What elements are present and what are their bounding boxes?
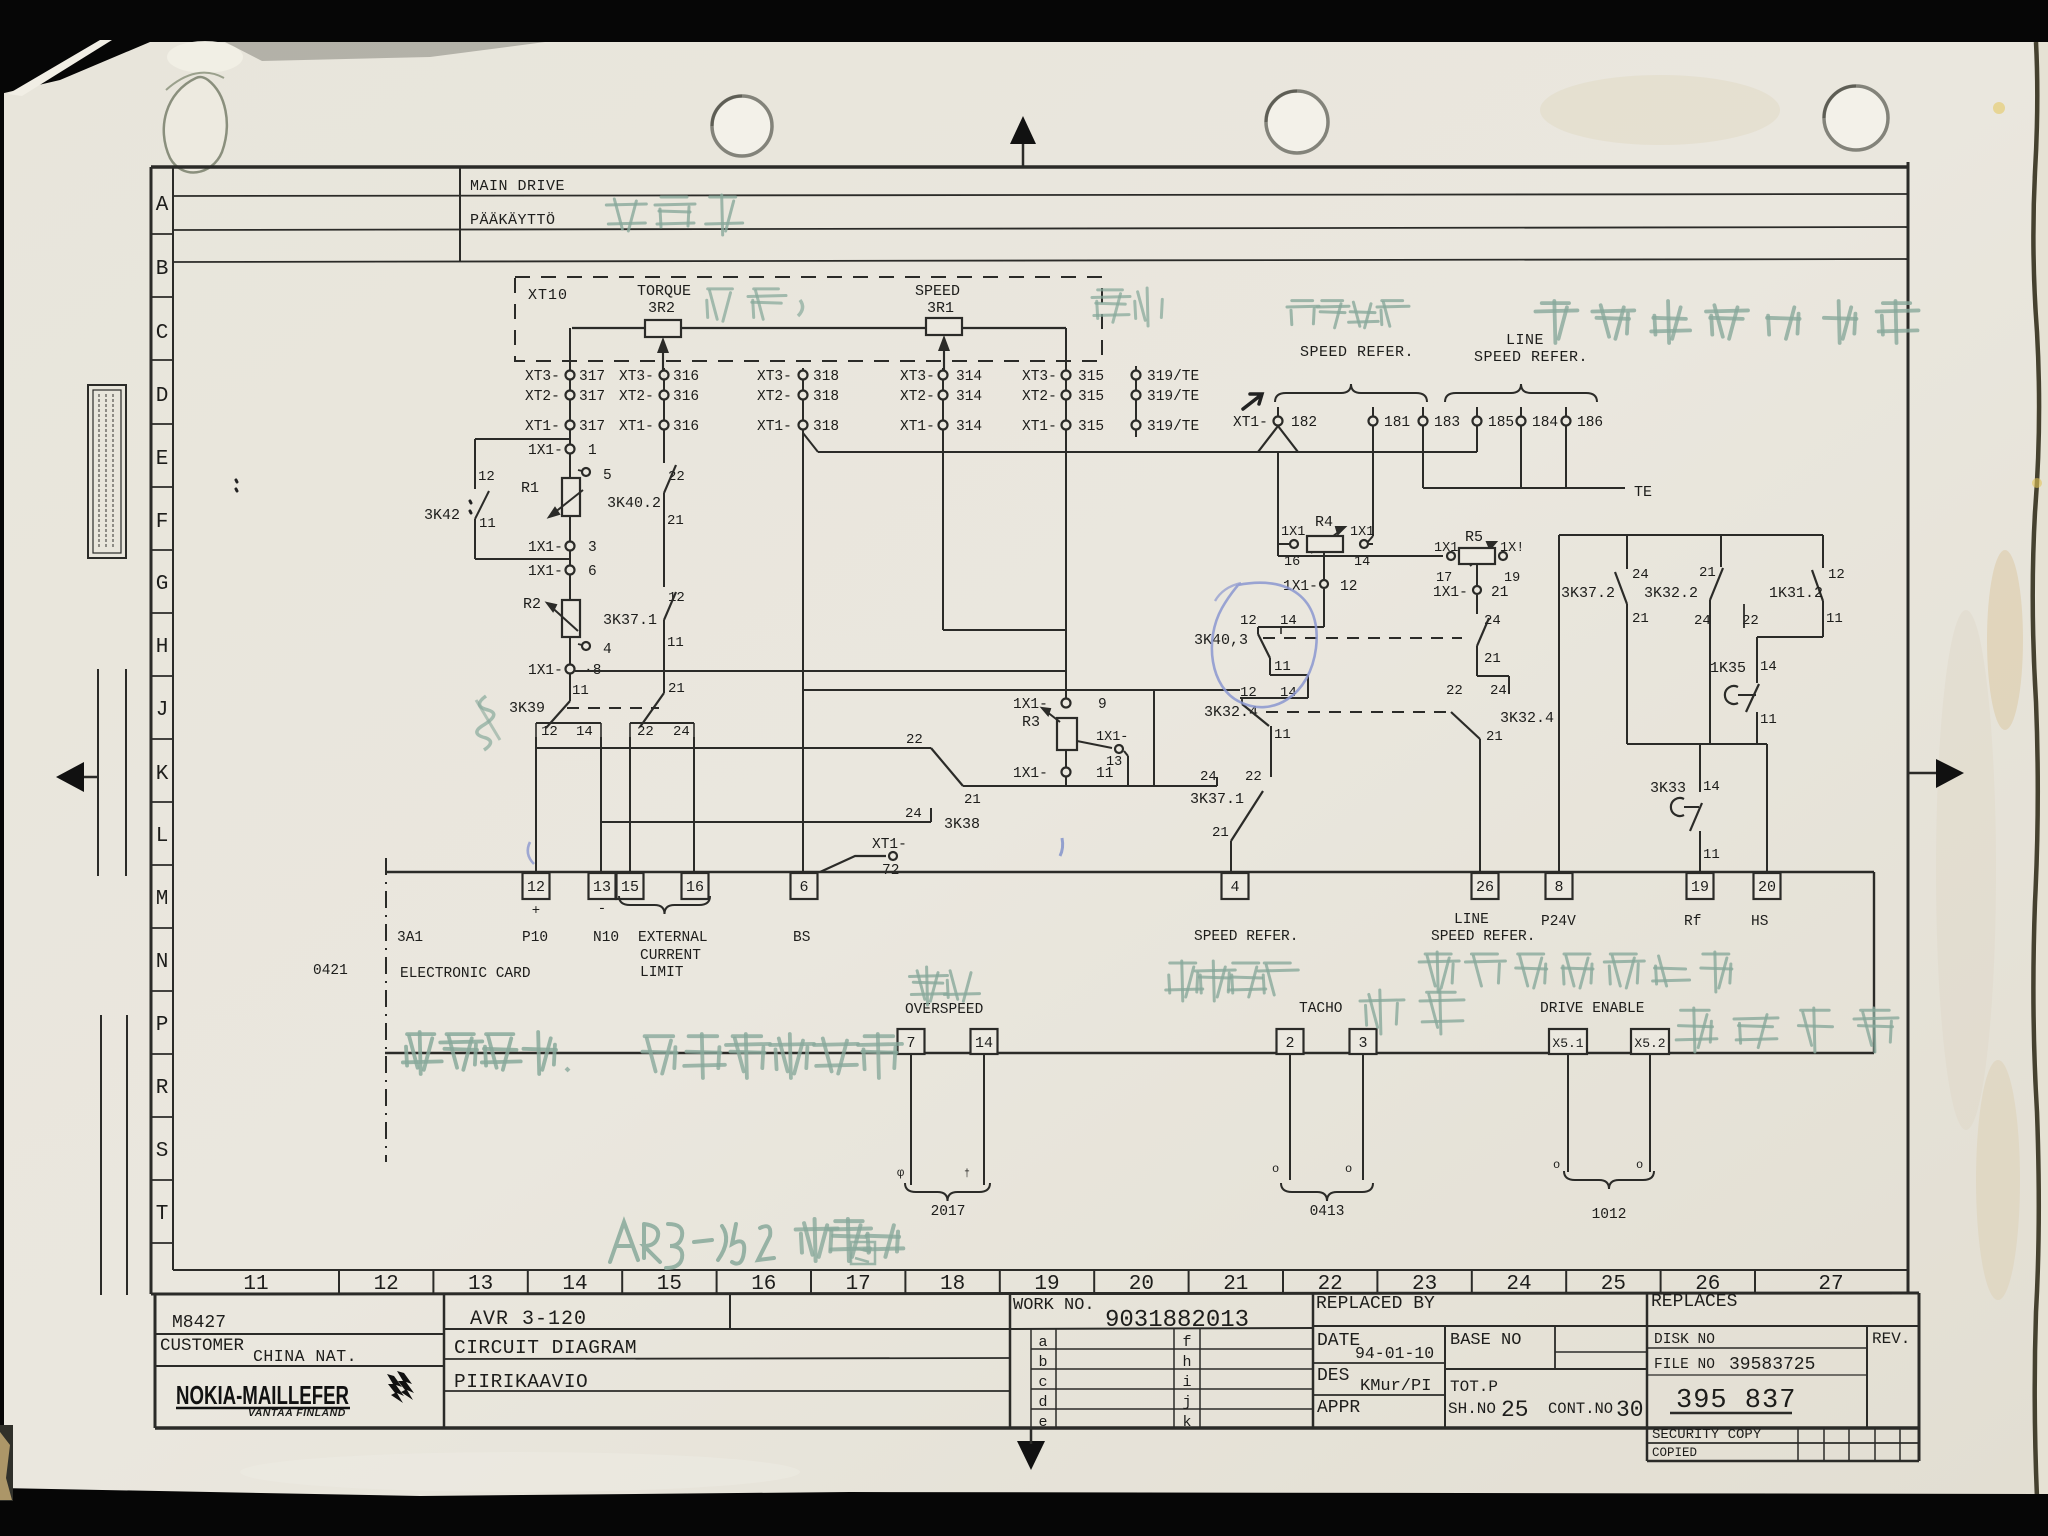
svg-text:3K40,3: 3K40,3 [1194, 632, 1248, 649]
svg-text:19: 19 [1034, 1273, 1059, 1296]
svg-text:1X1-: 1X1- [528, 540, 563, 556]
svg-text:314: 314 [956, 389, 982, 405]
svg-text:XT1-: XT1- [619, 419, 654, 435]
svg-text:316: 316 [673, 369, 699, 385]
svg-text:21: 21 [1486, 729, 1503, 745]
svg-text:SPEED REFER.: SPEED REFER. [1474, 349, 1588, 366]
svg-text:21: 21 [1484, 651, 1501, 667]
svg-text:3R1: 3R1 [927, 300, 954, 317]
svg-text:L: L [156, 825, 169, 848]
svg-text:1: 1 [588, 443, 597, 459]
svg-text:20: 20 [1758, 879, 1776, 896]
svg-text:316: 316 [673, 419, 699, 435]
svg-text:22: 22 [1245, 769, 1262, 785]
svg-text:24: 24 [1506, 1273, 1531, 1296]
svg-text:DRIVE ENABLE: DRIVE ENABLE [1540, 1001, 1644, 1017]
svg-text:319/TE: 319/TE [1147, 369, 1199, 385]
svg-text:J: J [156, 699, 169, 722]
svg-text:1X1: 1X1 [1350, 525, 1374, 540]
svg-text:184: 184 [1532, 415, 1558, 431]
svg-text:TORQUE: TORQUE [637, 283, 691, 300]
svg-text:27: 27 [1818, 1273, 1843, 1296]
svg-text:1X1-: 1X1- [1433, 585, 1468, 601]
svg-text:11: 11 [1274, 659, 1291, 675]
svg-text:24: 24 [1200, 769, 1217, 785]
svg-text:XT2-: XT2- [619, 389, 654, 405]
svg-text:3K42: 3K42 [424, 507, 460, 524]
svg-text:12: 12 [1240, 613, 1257, 629]
svg-text:21: 21 [1632, 611, 1649, 627]
svg-text:CURRENT: CURRENT [640, 948, 701, 964]
svg-text:6: 6 [799, 879, 808, 896]
svg-text:G: G [156, 573, 169, 596]
svg-text:SPEED: SPEED [915, 283, 960, 300]
svg-text:318: 318 [813, 369, 839, 385]
svg-text:9031882013: 9031882013 [1105, 1307, 1249, 1334]
svg-text:24: 24 [673, 724, 690, 740]
svg-text:94-01-10: 94-01-10 [1355, 1344, 1434, 1363]
svg-text:REPLACES: REPLACES [1651, 1292, 1737, 1312]
svg-text:318: 318 [813, 419, 839, 435]
svg-text:21: 21 [964, 792, 981, 808]
svg-text:11: 11 [243, 1273, 268, 1296]
svg-text:6: 6 [588, 564, 597, 580]
svg-text:X5.2: X5.2 [1634, 1036, 1665, 1051]
svg-text:F: F [156, 511, 169, 534]
svg-text:P: P [156, 1014, 169, 1037]
svg-text:3K32.2: 3K32.2 [1644, 585, 1698, 602]
svg-text:XT1-: XT1- [872, 837, 907, 853]
svg-text:XT3-: XT3- [900, 369, 935, 385]
svg-text:C: C [156, 322, 169, 345]
svg-text:d: d [1038, 1394, 1047, 1411]
svg-text:SPEED REFER.: SPEED REFER. [1431, 929, 1535, 945]
svg-text:16: 16 [686, 879, 704, 896]
svg-text:12: 12 [374, 1273, 399, 1296]
svg-text:316: 316 [673, 389, 699, 405]
svg-text:TE: TE [1634, 484, 1652, 501]
svg-text:-: - [598, 901, 606, 917]
svg-text:21: 21 [1223, 1273, 1248, 1296]
svg-text:11: 11 [1274, 727, 1291, 743]
svg-text:1X1-: 1X1- [528, 663, 563, 679]
svg-text:3R2: 3R2 [648, 300, 675, 317]
svg-text:17: 17 [1436, 571, 1452, 586]
svg-text:WORK NO.: WORK NO. [1013, 1296, 1095, 1315]
svg-text:1X1-: 1X1- [1096, 730, 1128, 745]
svg-text:24: 24 [905, 806, 922, 822]
svg-text:3A1: 3A1 [397, 930, 423, 946]
svg-text:SPEED REFER.: SPEED REFER. [1300, 344, 1414, 361]
svg-text:11: 11 [1760, 712, 1777, 728]
svg-text:12: 12 [541, 724, 558, 740]
svg-text:XT3-: XT3- [757, 369, 792, 385]
svg-text:CONT.NO: CONT.NO [1548, 1400, 1613, 1418]
svg-text:XT2-: XT2- [525, 389, 560, 405]
svg-text:XT1-: XT1- [1233, 415, 1268, 431]
svg-text:e: e [1038, 1414, 1047, 1431]
svg-text:11: 11 [667, 635, 684, 651]
svg-text:25: 25 [1501, 1397, 1529, 1423]
svg-text:REPLACED BY: REPLACED BY [1316, 1294, 1435, 1314]
svg-text:12: 12 [1340, 579, 1357, 595]
svg-text:R2: R2 [523, 596, 541, 613]
svg-text:11: 11 [1826, 611, 1843, 627]
svg-text:XT2-: XT2- [900, 389, 935, 405]
svg-text:LINE: LINE [1454, 912, 1489, 928]
svg-text:DISK NO: DISK NO [1654, 1332, 1715, 1348]
svg-text:30: 30 [1616, 1397, 1644, 1423]
svg-text:+: + [532, 903, 540, 919]
svg-text:1X1-: 1X1- [1013, 766, 1048, 782]
svg-text:3K37.2: 3K37.2 [1561, 585, 1615, 602]
svg-text:LINE: LINE [1506, 332, 1544, 349]
svg-text:k: k [1182, 1414, 1191, 1431]
svg-text:14: 14 [576, 724, 593, 740]
svg-text:20: 20 [1129, 1273, 1154, 1296]
svg-text:16: 16 [751, 1273, 776, 1296]
svg-text:3K32.4: 3K32.4 [1500, 710, 1554, 727]
svg-text:XT1-: XT1- [900, 419, 935, 435]
svg-text:18: 18 [940, 1273, 965, 1296]
svg-text:PÄÄKÄYTTÖ: PÄÄKÄYTTÖ [470, 211, 556, 229]
svg-text:EXTERNAL: EXTERNAL [638, 930, 708, 946]
svg-text:1X1-: 1X1- [1013, 697, 1048, 713]
svg-text:PIIRIKAAVIO: PIIRIKAAVIO [454, 1371, 588, 1393]
svg-text:o: o [1553, 1158, 1560, 1172]
svg-text:15: 15 [657, 1273, 682, 1296]
svg-text:P24V: P24V [1541, 914, 1576, 930]
svg-text:22: 22 [906, 732, 923, 748]
svg-text:3: 3 [588, 540, 597, 556]
svg-text:3K33: 3K33 [1650, 780, 1686, 797]
svg-text:†: † [964, 1168, 970, 1180]
svg-text:24: 24 [1694, 613, 1711, 629]
svg-text:183: 183 [1434, 415, 1460, 431]
svg-text:1X1: 1X1 [1281, 525, 1305, 540]
svg-text:186: 186 [1577, 415, 1603, 431]
svg-text:23: 23 [1412, 1273, 1437, 1296]
svg-text:11: 11 [1703, 847, 1720, 863]
svg-text:17: 17 [846, 1273, 871, 1296]
svg-text:SPEED REFER.: SPEED REFER. [1194, 929, 1298, 945]
svg-text:N10: N10 [593, 930, 619, 946]
svg-text:19: 19 [1504, 571, 1520, 586]
svg-text:R3: R3 [1022, 714, 1040, 731]
svg-text:R: R [156, 1077, 169, 1100]
svg-text:3K40.2: 3K40.2 [607, 495, 661, 512]
svg-text:BS: BS [793, 930, 810, 946]
svg-text:24: 24 [1490, 683, 1507, 699]
svg-text:8: 8 [1554, 879, 1563, 896]
svg-text:j: j [1182, 1394, 1191, 1411]
svg-text:1K35: 1K35 [1710, 660, 1746, 677]
svg-text:14: 14 [975, 1035, 993, 1052]
svg-text:NOKIA-MAILLEFER: NOKIA-MAILLEFER [176, 1380, 349, 1410]
svg-text:1X1-: 1X1- [528, 564, 563, 580]
svg-text:13: 13 [593, 879, 611, 896]
svg-text:R1: R1 [521, 480, 539, 497]
svg-text:3K37.1: 3K37.1 [603, 612, 657, 629]
svg-text:3: 3 [1358, 1035, 1367, 1052]
svg-text:XT10: XT10 [528, 287, 568, 304]
svg-text:181: 181 [1384, 415, 1410, 431]
svg-text:21: 21 [1699, 565, 1716, 581]
svg-text:φ: φ [897, 1166, 904, 1180]
svg-text:11: 11 [572, 683, 589, 699]
svg-text:315: 315 [1078, 369, 1104, 385]
svg-text:b: b [1038, 1354, 1047, 1371]
svg-text:HS: HS [1751, 914, 1768, 930]
svg-text:FILE NO: FILE NO [1654, 1357, 1715, 1373]
svg-text:DATE: DATE [1317, 1331, 1360, 1351]
svg-text:26: 26 [1476, 879, 1494, 896]
svg-text:1X1-: 1X1- [528, 443, 563, 459]
svg-text:1X!: 1X! [1500, 541, 1524, 556]
svg-text:f: f [1182, 1334, 1191, 1351]
svg-text:16: 16 [1284, 555, 1300, 570]
svg-text:5: 5 [603, 468, 612, 484]
svg-text:319/TE: 319/TE [1147, 419, 1199, 435]
svg-text:APPR: APPR [1317, 1398, 1360, 1418]
svg-text:317: 317 [579, 419, 605, 435]
svg-text:REV.: REV. [1872, 1330, 1910, 1348]
svg-text:h: h [1182, 1354, 1191, 1371]
svg-text:7: 7 [906, 1035, 915, 1052]
svg-text:AVR 3-120: AVR 3-120 [470, 1308, 587, 1331]
svg-text:4: 4 [603, 642, 612, 658]
svg-text:3K37.1: 3K37.1 [1190, 791, 1244, 808]
svg-text:12: 12 [1828, 567, 1845, 583]
svg-text:12: 12 [527, 879, 545, 896]
svg-text:o: o [1345, 1162, 1352, 1176]
svg-text:14: 14 [1760, 659, 1777, 675]
svg-text:315: 315 [1078, 419, 1104, 435]
svg-text:OVERSPEED: OVERSPEED [905, 1002, 983, 1018]
svg-text:3K39: 3K39 [509, 700, 545, 717]
svg-text:o: o [1636, 1158, 1643, 1172]
svg-text:4: 4 [1230, 879, 1239, 896]
svg-text:3K38: 3K38 [944, 816, 980, 833]
svg-text:XT3-: XT3- [525, 369, 560, 385]
svg-text:BASE NO: BASE NO [1450, 1331, 1521, 1350]
svg-text:2017: 2017 [931, 1204, 966, 1220]
svg-text:D: D [156, 385, 169, 408]
svg-text:E: E [156, 448, 169, 471]
svg-text:1X1: 1X1 [1434, 541, 1458, 556]
svg-text:TOT.P: TOT.P [1450, 1378, 1498, 1396]
svg-text:SH.NO: SH.NO [1448, 1400, 1496, 1418]
svg-text:13: 13 [468, 1273, 493, 1296]
svg-text:39583725: 39583725 [1729, 1355, 1815, 1375]
svg-text:XT3-: XT3- [1022, 369, 1057, 385]
svg-text:1012: 1012 [1592, 1207, 1627, 1223]
svg-text:11: 11 [1096, 766, 1113, 782]
svg-text:314: 314 [956, 419, 982, 435]
svg-text:2: 2 [1285, 1035, 1294, 1052]
svg-text:19: 19 [1691, 879, 1709, 896]
svg-text:KMur/PI: KMur/PI [1360, 1377, 1431, 1396]
svg-text:11: 11 [479, 516, 496, 532]
svg-text:22: 22 [1446, 683, 1463, 699]
svg-text:21: 21 [668, 681, 685, 697]
svg-text:317: 317 [579, 369, 605, 385]
svg-text:24: 24 [1632, 567, 1649, 583]
svg-text:CIRCUIT DIAGRAM: CIRCUIT DIAGRAM [454, 1337, 637, 1359]
svg-text:SECURITY COPY: SECURITY COPY [1652, 1427, 1762, 1443]
svg-text:ELECTRONIC CARD: ELECTRONIC CARD [400, 966, 531, 982]
svg-text:i: i [1182, 1374, 1191, 1391]
svg-text:XT1-: XT1- [525, 419, 560, 435]
svg-text:LIMIT: LIMIT [640, 965, 684, 981]
svg-text:CHINA NAT.: CHINA NAT. [253, 1347, 357, 1366]
svg-text:A: A [156, 194, 169, 217]
svg-text:25: 25 [1601, 1273, 1626, 1296]
svg-text:22: 22 [1318, 1273, 1343, 1296]
svg-text:14: 14 [1703, 779, 1720, 795]
svg-text:M8427: M8427 [172, 1313, 226, 1333]
svg-text:c: c [1038, 1374, 1047, 1391]
svg-text:21: 21 [667, 513, 684, 529]
svg-text:22: 22 [637, 724, 654, 740]
svg-text:XT2-: XT2- [1022, 389, 1057, 405]
svg-text:B: B [156, 258, 169, 281]
svg-text:182: 182 [1291, 415, 1317, 431]
svg-text:15: 15 [621, 879, 639, 896]
svg-text:319/TE: 319/TE [1147, 389, 1199, 405]
svg-text:0413: 0413 [1310, 1204, 1345, 1220]
svg-text:M: M [156, 888, 169, 911]
svg-text:12: 12 [478, 469, 495, 485]
svg-text:315: 315 [1078, 389, 1104, 405]
svg-text:S: S [156, 1140, 169, 1163]
svg-text:N: N [156, 951, 169, 974]
svg-text:a: a [1038, 1334, 1047, 1351]
svg-text:T: T [156, 1203, 169, 1226]
svg-text:MAIN DRIVE: MAIN DRIVE [470, 178, 565, 195]
svg-text:R5: R5 [1465, 529, 1483, 546]
svg-text:395 837: 395 837 [1676, 1386, 1796, 1416]
svg-text:XT3-: XT3- [619, 369, 654, 385]
svg-text:K: K [156, 763, 169, 786]
svg-text:317: 317 [579, 389, 605, 405]
svg-text:21: 21 [1212, 825, 1229, 841]
svg-text:9: 9 [1098, 697, 1107, 713]
svg-text:Rf: Rf [1684, 914, 1701, 930]
svg-text:314: 314 [956, 369, 982, 385]
svg-text:VANTAA FINLAND: VANTAA FINLAND [248, 1407, 346, 1419]
svg-text:CUSTOMER: CUSTOMER [160, 1336, 245, 1356]
svg-text:14: 14 [562, 1273, 587, 1296]
svg-text:0421: 0421 [313, 963, 348, 979]
svg-text:o: o [1272, 1162, 1279, 1176]
svg-text:TACHO: TACHO [1299, 1001, 1343, 1017]
svg-text:XT1-: XT1- [1022, 419, 1057, 435]
svg-text:XT1-: XT1- [757, 419, 792, 435]
svg-text:COPIED: COPIED [1652, 1446, 1697, 1460]
svg-text:318: 318 [813, 389, 839, 405]
svg-text:DES: DES [1317, 1366, 1349, 1386]
svg-text:X5.1: X5.1 [1552, 1036, 1583, 1051]
svg-text:R4: R4 [1315, 514, 1333, 531]
svg-text:14: 14 [1280, 613, 1297, 629]
svg-text:1K31.2: 1K31.2 [1769, 585, 1823, 602]
svg-text:14: 14 [1354, 555, 1370, 570]
svg-text:P10: P10 [522, 930, 548, 946]
svg-text:185: 185 [1488, 415, 1514, 431]
svg-text:XT2-: XT2- [757, 389, 792, 405]
svg-text:H: H [156, 636, 169, 659]
svg-text:21: 21 [1491, 585, 1508, 601]
